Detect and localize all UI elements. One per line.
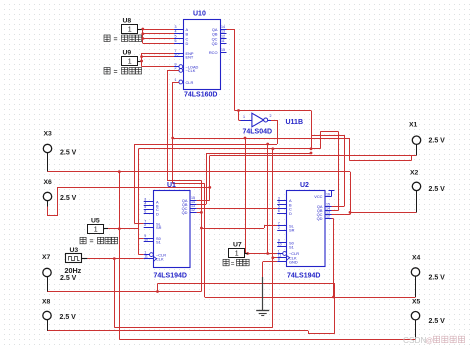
svg-text:74LS194D: 74LS194D xyxy=(154,272,187,279)
wire X3 bus xyxy=(48,171,351,173)
probe X3 xyxy=(43,144,51,152)
wire line down to U1 CLRb xyxy=(138,149,140,255)
svg-text:CSDN: CSDN xyxy=(403,335,427,345)
switch U9 xyxy=(122,57,138,66)
svg-text:8: 8 xyxy=(278,258,280,262)
svg-text:CLK: CLK xyxy=(156,256,164,261)
label U8 xyxy=(123,17,132,24)
wire U2 clock down xyxy=(272,149,274,258)
wire X2 stem xyxy=(416,191,418,213)
junction U7 feed xyxy=(244,137,247,140)
wire ground stem xyxy=(262,262,264,277)
junction X3 X2 QC xyxy=(349,211,352,214)
svg-text:2.5 V: 2.5 V xyxy=(60,195,77,202)
wire clock down xyxy=(114,259,116,328)
svg-text:U10: U10 xyxy=(193,11,206,18)
svg-text:=: = xyxy=(114,36,118,43)
wire clock bottom bus xyxy=(114,327,272,329)
wire U9 pin xyxy=(138,61,142,63)
svg-text:S1: S1 xyxy=(156,239,161,244)
label U2 xyxy=(300,182,309,189)
wire into U1 SL xyxy=(135,223,144,225)
junction U8 bus 2 xyxy=(141,32,144,35)
wire into U1 CLRb xyxy=(139,254,144,256)
svg-text:2.5 V: 2.5 V xyxy=(429,137,446,144)
label X2 xyxy=(410,170,419,177)
svg-text:=: = xyxy=(231,261,235,268)
wire U10 CLR left xyxy=(173,82,179,84)
label X1 voltage xyxy=(429,137,446,144)
svg-text:6: 6 xyxy=(175,39,177,43)
junction X3 bus tap xyxy=(118,170,121,173)
svg-text:CLR: CLR xyxy=(186,80,194,85)
junction U2 clock xyxy=(271,256,274,259)
switch U5 xyxy=(88,225,104,234)
label X5 xyxy=(412,298,421,305)
junction SL branch xyxy=(200,227,203,230)
wire X2 line xyxy=(350,212,417,214)
label X6 xyxy=(44,179,53,186)
svg-text:2.5 V: 2.5 V xyxy=(60,314,77,321)
wire feedback bottom xyxy=(308,333,335,335)
junction reset line xyxy=(266,143,269,146)
svg-text:X6: X6 xyxy=(44,179,53,186)
svg-text:X7: X7 xyxy=(42,254,51,261)
wire feedback down right xyxy=(334,284,336,334)
svg-text:D: D xyxy=(289,211,292,216)
wire U2 QA out xyxy=(332,206,345,208)
svg-text:U9: U9 xyxy=(123,50,132,57)
svg-text:X4: X4 xyxy=(412,255,421,262)
svg-text:2.5 V: 2.5 V xyxy=(429,186,446,193)
label X1 xyxy=(409,122,418,129)
junction reset U2 CLR xyxy=(266,252,269,255)
wire U2 QB up xyxy=(338,132,340,211)
wire U2 QD down xyxy=(333,219,335,298)
junction U9 bus 2 xyxy=(140,60,143,63)
label U10 part 74LS160D xyxy=(184,92,217,99)
junction U8 bus 3 xyxy=(141,37,144,40)
wire reset top line xyxy=(173,138,350,140)
label X2 voltage xyxy=(429,186,446,193)
wire U3 to U1 CLK xyxy=(87,258,143,260)
wire X8 bus xyxy=(47,330,308,332)
svg-text:U5: U5 xyxy=(91,217,100,224)
svg-text:~CLK: ~CLK xyxy=(186,68,196,73)
IC U1 74LS194D xyxy=(144,191,197,268)
label U7 xyxy=(233,242,242,249)
svg-text:VCC: VCC xyxy=(314,194,322,199)
label X8 xyxy=(42,298,51,305)
svg-text:10: 10 xyxy=(144,238,148,242)
svg-text:ENT: ENT xyxy=(186,54,194,59)
wire U2 GND xyxy=(263,261,278,263)
svg-text:QD: QD xyxy=(317,216,323,221)
svg-text:1: 1 xyxy=(94,226,98,233)
wire CLR down xyxy=(172,82,174,184)
wire U2 QD out xyxy=(332,218,334,220)
svg-text:74LS04D: 74LS04D xyxy=(243,129,273,136)
switch U8 xyxy=(122,25,138,34)
svg-text:X5: X5 xyxy=(412,298,421,305)
svg-text:14: 14 xyxy=(221,25,225,29)
wire U8 to U10 B xyxy=(143,33,174,35)
wire X4 stem xyxy=(415,276,417,297)
junction QA to clock line xyxy=(310,147,313,150)
svg-text:RCO: RCO xyxy=(209,50,218,55)
junction U2 QD to X4 bus xyxy=(332,296,335,299)
svg-text:D: D xyxy=(156,211,159,216)
wire U7 row to U2 CLRb xyxy=(245,253,277,255)
wire branch jog xyxy=(264,226,266,228)
svg-text:20Hz: 20Hz xyxy=(65,266,82,275)
wire X5 bus xyxy=(119,339,415,341)
wire QA branch right xyxy=(235,110,312,112)
label U8 key=space xyxy=(104,35,142,43)
wire U5 right xyxy=(108,228,139,230)
wire U2 clock line xyxy=(139,148,321,150)
svg-text:74LS194D: 74LS194D xyxy=(287,272,320,279)
label X7 voltage xyxy=(60,275,77,282)
wire feedback riser xyxy=(157,284,159,292)
wire U2 QC out xyxy=(332,214,351,216)
svg-text:6: 6 xyxy=(144,209,146,213)
wire branch to U2 SL xyxy=(201,228,264,230)
svg-text:U8: U8 xyxy=(123,17,132,24)
svg-text:U3: U3 xyxy=(70,247,79,254)
svg-text:1: 1 xyxy=(128,59,132,66)
IC U10 74LS160D xyxy=(174,20,227,90)
svg-text:1: 1 xyxy=(235,251,239,258)
svg-text:X1: X1 xyxy=(409,122,418,129)
junction U8 bus 1 xyxy=(141,28,144,31)
wire U9 to U10 ENT xyxy=(142,56,174,58)
probe X1 xyxy=(412,136,420,144)
wire CLR stair down xyxy=(204,184,206,298)
svg-text:1: 1 xyxy=(243,115,245,119)
wire U1 QC to U2 C xyxy=(197,208,278,210)
svg-text:D: D xyxy=(186,41,189,46)
svg-text:GND: GND xyxy=(289,260,298,265)
svg-text:5: 5 xyxy=(175,34,177,38)
probe X5 xyxy=(411,312,419,320)
IC U2 74LS194D xyxy=(277,191,331,267)
label X3 voltage xyxy=(60,149,77,156)
wire X3 down to X2 row xyxy=(350,172,352,213)
wire inverter input xyxy=(239,120,241,122)
wire X1 lower line xyxy=(349,160,411,162)
label X8 voltage xyxy=(60,314,77,321)
wire CLR stair right xyxy=(173,183,205,185)
wire U2 QB down to clock line xyxy=(320,132,322,149)
wire U5 jog down xyxy=(138,229,140,239)
probe X6 xyxy=(43,192,51,200)
label X6 voltage xyxy=(60,195,77,202)
svg-text:SR: SR xyxy=(156,225,162,230)
svg-text:2: 2 xyxy=(278,226,280,230)
wire QA down xyxy=(234,29,236,111)
svg-text:1: 1 xyxy=(128,26,132,33)
junction U2 clock line top xyxy=(271,147,274,150)
wire U3 pin xyxy=(82,258,87,260)
wire X8 stem xyxy=(47,320,49,331)
wire CLKb down xyxy=(167,70,169,180)
svg-text:U7: U7 xyxy=(233,242,242,249)
svg-text:2.5 V: 2.5 V xyxy=(60,149,77,156)
wire U2 QA up xyxy=(344,135,346,207)
clock source U3 20Hz xyxy=(66,254,82,263)
svg-text:12: 12 xyxy=(221,34,225,38)
svg-text:QD: QD xyxy=(182,210,188,215)
junction QD U1 xyxy=(200,211,203,214)
wire U8 to U10 D xyxy=(143,43,174,45)
wire U10 QA out xyxy=(227,29,235,31)
wire X8 bus end down xyxy=(308,331,310,334)
wire U9 to U10 ENP xyxy=(142,53,174,55)
svg-text:12: 12 xyxy=(326,214,330,218)
junction CLR stair branch xyxy=(171,137,174,140)
svg-text:4: 4 xyxy=(175,30,177,34)
watermark CSDN xyxy=(403,335,465,345)
label U9 key=space xyxy=(104,68,142,76)
wire clock up to U2 xyxy=(272,258,274,328)
probe X7 xyxy=(43,268,51,276)
svg-text:11: 11 xyxy=(144,254,148,258)
wire U8 pin xyxy=(138,29,143,31)
label U9 xyxy=(123,50,132,57)
wire X7 bus xyxy=(47,291,201,293)
svg-text:11: 11 xyxy=(221,39,225,43)
svg-text:QD: QD xyxy=(212,41,218,46)
wire X5 stem xyxy=(415,320,417,340)
svg-text:2.5 V: 2.5 V xyxy=(429,318,446,325)
svg-text:=: = xyxy=(90,239,94,246)
junction X6 line QA xyxy=(208,186,211,189)
label X4 xyxy=(412,255,421,262)
svg-text:@: @ xyxy=(426,336,434,345)
svg-text:X8: X8 xyxy=(42,298,51,305)
switch U7 xyxy=(229,249,245,258)
wire U9 to U10 LOAD xyxy=(142,66,179,68)
svg-text:S1: S1 xyxy=(289,245,294,250)
svg-text:2: 2 xyxy=(270,114,272,118)
svg-text:2: 2 xyxy=(175,66,177,70)
label U7 key=space xyxy=(223,259,249,267)
wire X1 line xyxy=(210,155,416,157)
label U1 part 74LS194D xyxy=(154,272,187,279)
svg-text:10: 10 xyxy=(175,52,179,56)
junction U9 bus 1 xyxy=(140,55,143,58)
label U11B part 74LS04D xyxy=(243,129,273,136)
probe X4 xyxy=(411,268,419,276)
svg-text:2.5 V: 2.5 V xyxy=(429,275,446,282)
wire U7 pin xyxy=(245,253,248,255)
wire X6 stem xyxy=(47,201,49,207)
junction X7 bus feedback xyxy=(156,290,159,293)
ground xyxy=(256,277,269,316)
svg-text:X2: X2 xyxy=(410,170,419,177)
wire U1 QD out xyxy=(197,212,202,214)
wire U10 CLKb left xyxy=(167,70,179,72)
label X3 xyxy=(44,131,53,138)
label X4 voltage xyxy=(429,275,446,282)
junction QA node xyxy=(237,109,240,112)
junction U5 node xyxy=(118,227,121,230)
label U3 freq xyxy=(65,266,82,275)
wire X4 bus xyxy=(205,297,416,299)
wire X6 jog xyxy=(48,188,210,216)
junction QB line xyxy=(310,152,313,155)
svg-text:=: = xyxy=(114,69,118,76)
label U5 xyxy=(91,217,100,224)
wire U2 QC up xyxy=(350,212,352,214)
wire X1 stem xyxy=(416,144,418,155)
label U10 xyxy=(193,11,206,18)
probe X2 xyxy=(412,182,420,190)
wire CLKb down 2 xyxy=(201,180,203,291)
junction U7 node xyxy=(246,252,249,255)
probe X8 xyxy=(43,311,51,319)
wire U8 to U10 C xyxy=(143,38,174,40)
inverter U11B 74LS04D xyxy=(241,113,272,127)
svg-text:2.5 V: 2.5 V xyxy=(60,275,77,282)
junction clock A xyxy=(113,257,116,260)
svg-text:X3: X3 xyxy=(44,131,53,138)
svg-text:3: 3 xyxy=(175,25,177,29)
wire U1 QA out xyxy=(197,200,210,202)
wire U7 feed down xyxy=(245,138,247,254)
svg-text:10: 10 xyxy=(278,243,282,247)
wire into U2 SL xyxy=(264,225,277,227)
svg-text:16: 16 xyxy=(326,192,330,196)
svg-text:1: 1 xyxy=(175,78,177,82)
wire inverter output down xyxy=(277,120,279,144)
wire clock into U2 CLK xyxy=(273,257,277,259)
wire U8 to U10 A xyxy=(142,29,174,31)
svg-text:2: 2 xyxy=(144,223,146,227)
svg-text:74LS160D: 74LS160D xyxy=(184,92,217,99)
wire U1 QB line xyxy=(206,153,311,155)
wire U5 pin xyxy=(104,228,109,230)
label X5 voltage xyxy=(429,318,446,325)
svg-text:U11B: U11B xyxy=(286,119,304,126)
svg-text:U2: U2 xyxy=(300,182,309,189)
power VCC U2 xyxy=(329,190,335,197)
wire U2 QB left xyxy=(320,131,338,133)
wire U1 QB out xyxy=(197,204,206,206)
label X7 xyxy=(42,254,51,261)
wire QA jog down to inverter xyxy=(238,111,240,121)
label U5 key=space xyxy=(80,237,118,245)
svg-text:13: 13 xyxy=(221,30,225,34)
svg-text:6: 6 xyxy=(278,209,280,213)
wire X7 stem xyxy=(47,277,49,292)
label U2 part 74LS194D xyxy=(287,272,320,279)
wire reset to U2 CLR xyxy=(267,144,269,254)
wire X3 down line xyxy=(119,172,121,340)
wire CLKb right xyxy=(167,180,201,182)
wire inverter output xyxy=(271,120,277,122)
wire X3 stem xyxy=(47,153,49,172)
wire feedback line xyxy=(158,283,335,285)
wire QA branch down xyxy=(311,111,313,149)
wire U1 QA riser xyxy=(209,156,211,201)
svg-text:15: 15 xyxy=(221,48,225,52)
wire left line down to U1 SL xyxy=(134,144,136,224)
wire into U1 S0 xyxy=(139,238,144,240)
wire U2 QA left xyxy=(311,135,344,137)
wire U8 bus vertical xyxy=(142,29,144,43)
wire reset top down xyxy=(349,138,351,161)
label U1 xyxy=(167,182,176,189)
wire U2 QB out xyxy=(332,210,339,212)
label U3 xyxy=(70,247,79,254)
wire reset line left xyxy=(135,144,278,146)
wire X1 lower jog xyxy=(411,156,413,161)
svg-text:SR: SR xyxy=(289,228,295,233)
svg-text:12: 12 xyxy=(191,208,195,212)
label U11B xyxy=(286,119,304,126)
wire U9 bus vertical xyxy=(141,53,143,67)
wire U1 QB riser xyxy=(206,153,208,204)
